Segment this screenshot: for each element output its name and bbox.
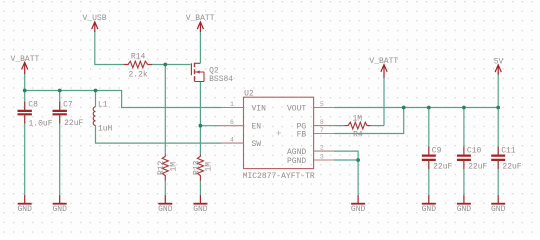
ground C9 [422, 195, 437, 214]
svg-text:V_USB: V_USB [82, 14, 106, 23]
pin 3 PGND [287, 153, 334, 166]
svg-text:V_BATT: V_BATT [369, 57, 398, 66]
svg-text:GND: GND [422, 205, 437, 214]
wire C9 bottom to ground [428, 161, 430, 195]
svg-text:1M: 1M [205, 162, 214, 172]
power flag 5V [494, 58, 504, 75]
svg-text:22uF: 22uF [64, 119, 83, 128]
power flag V_USB [82, 14, 106, 32]
svg-text:GND: GND [193, 205, 208, 214]
capacitor C8 [18, 101, 53, 129]
wire C8 bottom to ground [24, 115, 26, 195]
IC U2 MIC2877-AYFT-TR [243, 90, 315, 181]
power flag V_BATT top [186, 14, 215, 32]
svg-text:1.0uF: 1.0uF [29, 120, 53, 129]
wire PG to R4 [334, 125, 344, 127]
svg-text:2: 2 [320, 144, 324, 151]
wire L1 bottom to U2 SW [96, 125, 222, 143]
svg-text:GND: GND [158, 205, 173, 214]
svg-text:C11: C11 [501, 147, 516, 156]
pin 6 EN [222, 119, 262, 132]
junction C9 on VOUT [427, 106, 431, 110]
svg-text:GND: GND [491, 205, 506, 214]
svg-text:R4: R4 [353, 131, 363, 140]
ground C11 [491, 195, 506, 214]
capacitor C11 [491, 147, 522, 172]
capacitor C7 [53, 101, 84, 128]
svg-text:7: 7 [320, 127, 324, 134]
junction L1 / V_BATT rail [94, 89, 98, 93]
wire L1 top [95, 91, 97, 107]
svg-text:GND: GND [457, 205, 472, 214]
resistor R4 [344, 115, 371, 140]
svg-text:V_BATT: V_BATT [10, 55, 39, 64]
wire C8 top [24, 91, 26, 110]
junction EN node [199, 124, 203, 128]
svg-text:R12: R12 [157, 160, 166, 175]
junction FB tap on VOUT [402, 106, 406, 110]
wire V_USB stem to R14 [95, 32, 124, 65]
svg-text:BSS84: BSS84 [209, 75, 233, 84]
resistor R13 [192, 154, 213, 181]
pin 4 SW [222, 136, 262, 149]
resistor R14 [124, 53, 153, 80]
wire V_BATT left stem [24, 74, 26, 91]
wire C10 top [463, 108, 465, 155]
wire Q2 drain down to EN node [199, 82, 201, 126]
svg-text:1uH: 1uH [98, 125, 113, 134]
wire C9 top [428, 108, 430, 155]
wire FB to VOUT rail [334, 108, 404, 134]
svg-text:GND: GND [17, 205, 32, 214]
ground R13 [193, 195, 208, 214]
ground U2 [351, 195, 366, 214]
svg-text:8: 8 [320, 119, 324, 126]
svg-text:U2: U2 [244, 90, 254, 99]
wire R4 to V_BATT stem [371, 125, 384, 127]
wire V_BATT right stem [383, 78, 385, 126]
pin 8 PG [297, 119, 334, 132]
svg-text:MIC2877-AYFT-TR: MIC2877-AYFT-TR [243, 172, 315, 181]
svg-text:EN: EN [252, 123, 262, 132]
ground C10 [457, 195, 472, 214]
junction C11 / 5V on VOUT [496, 106, 500, 110]
wire C7 bottom to ground [59, 115, 61, 195]
inductor L1 [93, 101, 112, 134]
svg-text:FB: FB [297, 130, 307, 139]
junction C8 / V_BATT rail [23, 89, 27, 93]
capacitor C10 [457, 147, 488, 172]
wire R12 to ground [164, 181, 166, 196]
pin 2 AGND [287, 144, 334, 157]
wire U2 ground drop [357, 160, 359, 195]
svg-text:C7: C7 [63, 101, 73, 110]
wire U2 PGND [334, 159, 358, 161]
transistor Q2 [191, 63, 233, 84]
svg-text:C10: C10 [467, 147, 482, 156]
svg-text:R13: R13 [192, 160, 201, 175]
pin 5 VOUT [287, 101, 334, 114]
svg-text:5V: 5V [494, 58, 504, 67]
ground R12 [158, 195, 173, 214]
wire R13 to ground [199, 181, 201, 196]
wire U2 AGND jog [334, 151, 358, 160]
junction C7 / V_BATT rail [58, 89, 62, 93]
wire EN node down to R13 [199, 126, 201, 155]
svg-text:22uF: 22uF [502, 163, 521, 172]
power flag V_BATT left [10, 55, 39, 74]
wire 5V stem [497, 72, 499, 107]
svg-text:2.2k: 2.2k [128, 70, 147, 79]
svg-text:L1: L1 [98, 101, 108, 110]
svg-text:SW: SW [252, 140, 262, 149]
wire V_BATT top stem to Q2 source [199, 32, 201, 64]
svg-text:6: 6 [230, 119, 234, 126]
ground C7 [52, 195, 67, 214]
svg-text:VIN: VIN [252, 104, 267, 113]
wire C11 bottom to ground [497, 161, 499, 195]
svg-text:3: 3 [320, 153, 324, 160]
wire R14 node down to R12 [164, 65, 166, 155]
svg-text:GND: GND [52, 205, 67, 214]
svg-text:4: 4 [230, 136, 234, 143]
svg-text:VOUT: VOUT [287, 104, 306, 113]
junction C10 on VOUT [462, 106, 466, 110]
wire EN node to U2 EN [200, 125, 221, 127]
wire VOUT rail [334, 107, 498, 109]
ground C8 [17, 195, 32, 214]
svg-text:PGND: PGND [287, 157, 306, 166]
svg-text:1M: 1M [169, 162, 178, 172]
svg-text:1: 1 [230, 101, 234, 108]
wire C10 bottom to ground [463, 161, 465, 195]
svg-text:V_BATT: V_BATT [186, 14, 215, 23]
wire R14 to Q2 gate [152, 64, 190, 66]
svg-text:22uF: 22uF [468, 163, 487, 172]
wire C11 top [497, 108, 499, 155]
pin 1 VIN [222, 101, 266, 114]
svg-text:C9: C9 [432, 147, 442, 156]
svg-text:22uF: 22uF [433, 163, 452, 172]
svg-text:GND: GND [351, 205, 366, 214]
junction AGND/PGND node [356, 158, 360, 162]
svg-text:C8: C8 [28, 101, 38, 110]
svg-text:1M: 1M [352, 115, 362, 124]
wire V_BATT rail to U2 VIN [25, 91, 222, 108]
svg-text:AGND: AGND [287, 148, 306, 157]
resistor R12 [157, 154, 178, 181]
wire C7 top [59, 91, 61, 110]
junction R14 / R12 / Q2 gate [163, 63, 167, 67]
pin 7 FB [297, 127, 334, 140]
svg-text:5: 5 [320, 101, 324, 108]
svg-text:R14: R14 [131, 53, 146, 62]
power flag V_BATT right [369, 57, 398, 78]
capacitor C9 [422, 147, 453, 172]
